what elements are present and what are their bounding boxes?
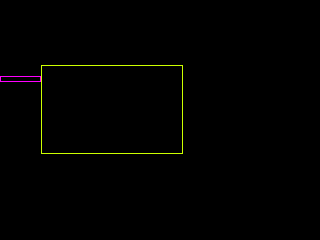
- pin P1 (magenta rectangle outline attached to left edge of body): [0, 76, 41, 82]
- component body U1 (yellow rectangle outline): [41, 65, 183, 154]
